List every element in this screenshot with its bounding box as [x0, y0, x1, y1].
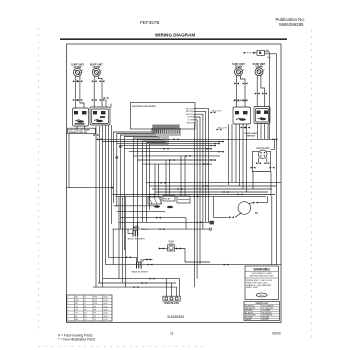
surface unit LF burner: [71, 63, 84, 76]
svg-text:3: 3: [67, 303, 68, 305]
EOC connector pin stubs: [153, 129, 180, 134]
left rear infinite switch: [90, 107, 110, 125]
svg-text:BL: BL: [75, 316, 77, 318]
electronic oven control U1: [131, 103, 196, 130]
EOC right pin leads nested corners: [194, 109, 209, 288]
connector LF upper: [73, 80, 78, 82]
svg-text:6: 6: [67, 313, 68, 315]
svg-text:3000: 3000: [103, 310, 107, 312]
page edge dots bottom: [39, 346, 205, 348]
svg-text:OVEN LAMP: OVEN LAMP: [256, 147, 270, 150]
junction box: [210, 221, 215, 225]
svg-text:SURFACE UNIT SW: SURFACE UNIT SW: [68, 131, 87, 134]
right front infinite switch: [233, 107, 251, 124]
connector EOC right leads: [211, 112, 216, 114]
surface unit RF burner: [232, 63, 245, 76]
svg-text:WIRING DIAGRAM: WIRING DIAGRAM: [155, 33, 195, 38]
svg-text:120V: 120V: [103, 319, 108, 321]
wire RF burner right lead: [240, 76, 245, 107]
svg-text:OR-P10: OR-P10: [186, 114, 195, 116]
svg-text:H1: H1: [84, 306, 86, 308]
oven TOD thermostat: [159, 241, 186, 262]
svg-text:09/03: 09/03: [272, 331, 281, 335]
wire LR burner left lead: [93, 76, 95, 107]
svg-text:RD-P11: RD-P11: [186, 111, 194, 113]
page edge dots right: [311, 30, 313, 341]
svg-text:WARNING: WARNING: [254, 267, 271, 271]
connector below right switch: [241, 127, 246, 129]
svg-text:2: 2: [67, 300, 68, 302]
connector bottom rows: [150, 278, 155, 280]
svg-text:L1: L1: [84, 297, 86, 299]
svg-text:BROIL ELEMENT: BROIL ELEMENT: [128, 239, 146, 241]
left front infinite switch: [73, 108, 89, 126]
junction dot: [112, 187, 114, 189]
svg-text:BK ▸◂ P4: BK ▸◂ P4: [212, 110, 222, 113]
svg-text:SWITCH: SWITCH: [246, 136, 255, 138]
connector motor leads: [253, 202, 258, 204]
svg-text:VT-P8: VT-P8: [187, 120, 194, 122]
connector above broil element: [134, 226, 139, 228]
terminal block: [163, 296, 180, 305]
svg-text:5995396285: 5995396285: [279, 22, 304, 27]
svg-text:8: 8: [67, 319, 68, 321]
connector RR leads: [255, 93, 260, 95]
wire bake right lead: [143, 259, 153, 261]
svg-text:FEF357B: FEF357B: [140, 20, 159, 25]
connector LR upper: [92, 80, 97, 82]
svg-text:1300: 1300: [103, 300, 107, 302]
surface unit RR burner: [253, 63, 266, 76]
wire RR burner right lead: [261, 76, 265, 107]
svg-text:2500: 2500: [103, 313, 107, 315]
wire relay feeds: [155, 156, 185, 197]
svg-text:BEFORE SERVICING UNIT: BEFORE SERVICING UNIT: [250, 275, 274, 277]
svg-text:WH/BK: WH/BK: [245, 319, 252, 321]
svg-text:1300: 1300: [103, 306, 107, 308]
wire bottom drops left: [113, 196, 125, 287]
svg-text:240V: 240V: [103, 316, 108, 318]
wire far right verticals: [269, 52, 276, 265]
wire terminal block drops: [166, 279, 179, 297]
connector lamp outer: [251, 167, 256, 169]
page edge dots left: [38, 28, 40, 333]
wire RF burner left lead: [236, 76, 238, 107]
connector bake right lead: [146, 259, 151, 261]
svg-text:TERM BLOCK: TERM BLOCK: [164, 303, 180, 305]
svg-text:* = Non-Illustrated Parts: * = Non-Illustrated Parts: [58, 337, 96, 341]
svg-text:WH-P7: WH-P7: [186, 122, 194, 124]
wire extra bundle vertical: [102, 125, 104, 287]
connector lower rows: [197, 221, 202, 223]
svg-text:B2: B2: [84, 316, 86, 318]
wire RR burner left lead: [256, 76, 258, 107]
junction circle 2: [119, 146, 121, 148]
bottom left wiring table: [67, 295, 113, 321]
svg-text:BK: BK: [255, 212, 259, 215]
svg-text:P6: P6: [94, 316, 96, 318]
svg-text:P10: P10: [94, 303, 97, 305]
wire lead into left rear switch top: [106, 100, 111, 108]
svg-text:RD ▸◂ P3: RD ▸◂ P3: [218, 127, 228, 130]
oven lamp PL: [252, 147, 271, 197]
connector mesh row2: [161, 182, 166, 184]
svg-text:B1: B1: [84, 313, 86, 315]
diagram border frame: [67, 44, 282, 323]
right rear infinite switch: [254, 107, 270, 124]
bake element: [132, 262, 149, 274]
lower mid horizontal wires: [112, 183, 281, 197]
EOC pin fan-out wires right group: [170, 128, 180, 136]
svg-text:P5: P5: [94, 319, 96, 321]
broil element: [128, 229, 149, 241]
connector on relay feed: [156, 217, 161, 219]
wire color legend table: [244, 302, 280, 322]
door latch switch box top right: [244, 50, 277, 59]
wire left bundle verticals: [77, 125, 112, 287]
svg-text:RF SURF SW: RF SURF SW: [234, 101, 248, 103]
surface unit LR burner: [90, 63, 103, 76]
junction circle: [209, 228, 211, 230]
connector above left rear switch: [104, 97, 109, 99]
door lock motor: [214, 196, 268, 217]
lower horizontal wires: [93, 222, 282, 287]
connector H1 right end: [273, 138, 278, 140]
connector LR leads: [92, 99, 97, 101]
wire from left border: [67, 134, 113, 188]
wire LF burner right lead: [80, 76, 84, 108]
warning box: [245, 266, 279, 300]
left switches label box: [68, 128, 96, 134]
svg-text:BK-P12: BK-P12: [186, 108, 194, 110]
junction circle 3: [116, 156, 118, 158]
svg-text:7: 7: [67, 316, 68, 318]
connector LF leads: [73, 99, 78, 101]
svg-text:5: 5: [67, 310, 68, 312]
wire relay left feeds: [113, 206, 186, 229]
EOC pin fan-out wires left group: [113, 128, 168, 262]
oven relay board K1: [148, 196, 190, 209]
svg-text:SEAL CONST.: SEAL CONST.: [246, 286, 259, 289]
svg-text:BAKE ELEMENT: BAKE ELEMENT: [132, 271, 149, 274]
svg-text:2100: 2100: [103, 297, 107, 299]
connector RF lower: [234, 99, 239, 101]
connector lamp leads: [256, 162, 261, 164]
wire LF burner left lead: [74, 76, 76, 108]
wire LR burner right lead: [98, 76, 102, 107]
svg-text:1: 1: [67, 297, 68, 299]
svg-text:H2: H2: [84, 310, 86, 312]
connector TOD leads: [159, 248, 164, 250]
svg-text:P9: P9: [94, 306, 96, 308]
svg-text:RELAY: RELAY: [164, 198, 171, 201]
svg-text:P8: P8: [94, 310, 96, 312]
svg-text:11: 11: [170, 331, 174, 335]
svg-text:P12: P12: [94, 297, 97, 299]
svg-text:RD/WH: RD/WH: [262, 319, 269, 321]
svg-text:316255309: 316255309: [167, 315, 184, 319]
svg-text:OR-14: OR-14: [259, 295, 265, 297]
EOC right pin labels: [186, 108, 195, 124]
svg-text:GY-P9: GY-P9: [187, 117, 194, 119]
svg-text:4: 4: [67, 306, 68, 308]
upper mid horizontal wires: [96, 139, 277, 164]
svg-text:P7: P7: [94, 313, 96, 315]
connector below left switch: [94, 134, 99, 136]
wire broil bake leads: [128, 222, 143, 262]
title rule: [60, 38, 287, 40]
svg-text:ELECTRONIC OVEN CONTROL: ELECTRONIC OVEN CONTROL: [132, 106, 156, 108]
svg-text:P11: P11: [94, 300, 97, 302]
svg-text:2100: 2100: [103, 303, 107, 305]
svg-text:L2: L2: [84, 303, 86, 305]
wire right switch drops: [229, 124, 269, 193]
connector mesh row1: [174, 138, 179, 140]
connector RF leads: [234, 83, 239, 85]
